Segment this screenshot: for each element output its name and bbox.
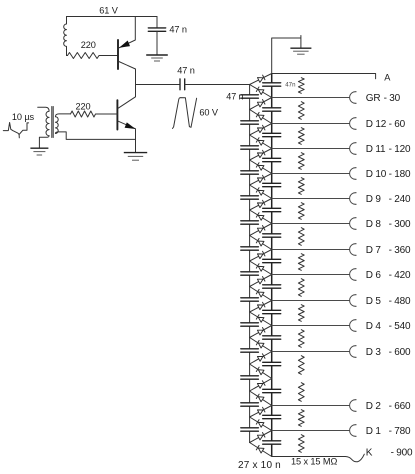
wire HT bus rail [271,74,273,457]
capacitor 10 n (left rail, stage 10) [241,323,259,326]
diode (stage 10b) [250,338,272,352]
diode (stage 12a) [250,379,272,392]
capacitor 10 n (left rail, stage 11) [241,349,259,352]
terminal arc GR [350,92,357,104]
tap wire D8 [272,223,350,225]
ground (below C1) [146,55,168,61]
tap wire D4 [272,325,350,327]
capacitor C4 47 n (left rail, top) [241,95,259,98]
resistor 15 M&#937; (divider segment 5) [298,178,304,195]
capacitor 10 n (left rail, stage 2) [241,121,259,124]
transformer T1 primary winding [38,107,49,136]
resistor 15 M&#937; (divider segment 1) [298,78,304,94]
resistor 15 M&#937; (divider segment 8) [298,254,304,271]
ground (transformer primary) [30,148,48,155]
ground (emitter of Q2) [124,153,147,161]
diode (stage 11a) [250,352,272,365]
svg-text:61 V: 61 V [99,6,118,16]
tap wire D10 [272,173,350,175]
capacitor 10 n (bus, stage 3) [263,158,281,161]
diode (stage 13b) [250,417,272,431]
terminal arc D3 [350,346,357,358]
tap wire D7 [272,249,350,251]
tap wire D11 [272,148,350,150]
diode (stage 2b) [250,135,272,149]
tap wire D1 [272,430,350,432]
resistor 15 M&#937; (divider segment 3) [298,128,304,145]
60 V pulse waveform sketch [173,98,197,129]
svg-text:- 360: - 360 [389,245,411,256]
terminal arc D5 [350,295,357,307]
svg-text:27 x 10 n: 27 x 10 n [238,460,281,471]
svg-text:A: A [384,72,391,82]
terminal arc D11 [350,143,357,155]
svg-text:D 12: D 12 [366,119,387,130]
transformer T1 primary return to ground [39,136,49,148]
diode (stage 4a) [250,174,272,186]
wire cathode line (bottom) [272,456,346,458]
svg-text:GR: GR [366,93,381,104]
diode (stage 14b) [250,443,272,457]
capacitor C3 47 n (bus, top) [263,83,281,86]
resistor R2 220 (base of Q2) [71,111,118,117]
wire bus to top ground [272,36,301,74]
capacitor 10 n (bus, stage 1) [263,108,281,111]
diode (stage 8b) [250,287,272,301]
svg-text:D 11: D 11 [366,144,386,155]
svg-text:- 420: - 420 [389,270,411,281]
tap wire GR [272,97,350,99]
diode (stage 6b) [250,236,272,250]
svg-text:- 240: - 240 [389,194,411,205]
terminal arc D4 [350,320,357,332]
capacitor 10 n (bus, stage 8) [263,285,281,288]
wire left (pulse) rail [249,85,251,443]
capacitor 10 n (bus, stage 5) [263,208,281,211]
diode (stage 0b) [250,85,272,98]
capacitor 10 n (bus, stage 10) [263,336,281,339]
svg-text:47 n: 47 n [177,66,194,76]
transistor Q1 (PNP) [118,17,136,85]
resistor 15 M&#937; (divider segment 11) [298,330,304,348]
svg-text:- 60: - 60 [389,119,406,130]
capacitor 10 n (bus, stage 14) [263,441,281,444]
wire anode rail / terminal A [272,74,376,79]
resistor 15 M&#937; (divider segment 12) [298,356,304,375]
capacitor 10 n (left rail, stage 5) [241,196,259,199]
resistor 15 M&#937; (divider segment 4) [298,153,304,170]
capacitor 10 n (bus, stage 7) [263,259,281,262]
svg-text:- 180: - 180 [389,169,411,180]
svg-text:- 30: - 30 [384,93,401,104]
diode (stage 3b) [250,160,272,174]
svg-text:- 900: - 900 [391,447,413,458]
svg-text:D 10: D 10 [366,169,387,180]
diode (stage 12b) [250,391,272,406]
tap wire D5 [272,300,350,302]
resistor R1 220 (base of Q1) [68,53,118,59]
svg-text:- 300: - 300 [389,219,411,230]
svg-text:47n: 47n [285,81,295,88]
diode (stage 5a) [250,199,272,211]
resistor 15 M&#937; (divider segment 15) [298,435,304,453]
capacitor 10 n (left rail, stage 7) [241,247,259,250]
diode (stage 13a) [250,406,272,418]
tap wire D6 [272,274,350,276]
wire 61V supply rail [67,16,158,18]
terminal arc D6 [350,269,357,281]
tap wire D12 [272,123,350,125]
svg-text:K: K [366,447,373,458]
capacitor 10 n (left rail, stage 13) [241,403,259,406]
ground (top of divider) [290,48,311,54]
diode (stage 14a) [250,431,272,443]
resistor 15 M&#937; (divider segment 9) [298,279,304,297]
svg-text:D 3: D 3 [366,347,382,358]
svg-text:- 480: - 480 [389,296,411,307]
svg-text:D 9: D 9 [366,194,382,205]
svg-text:D 5: D 5 [366,296,382,307]
svg-text:- 780: - 780 [389,426,411,437]
diode (stage 0a) [250,74,272,85]
capacitor C1 47 n (61V rail) [148,17,165,55]
tap wire D2 [272,405,350,407]
capacitor 10 n (bus, stage 11) [263,362,281,365]
diode (stage 9a) [250,301,272,313]
diode (stage 11b) [250,364,272,379]
svg-text:- 600: - 600 [389,347,411,358]
capacitor 10 n (bus, stage 2) [263,133,281,136]
terminal arc D12 [350,118,357,130]
capacitor C2 47 n (coupling) [180,79,185,90]
terminal arc D2 [350,400,357,412]
tap wire D3 [272,351,350,353]
svg-text:47 n: 47 n [169,25,186,35]
diode (stage 8a) [250,275,272,287]
terminal arc D1 [350,425,357,437]
diode (stage 4b) [250,185,272,199]
svg-text:D 7: D 7 [366,245,382,256]
svg-text:D 8: D 8 [366,219,382,230]
resistor 15 M&#937; (divider segment 13) [298,383,304,402]
capacitor 10 n (left rail, stage 9) [241,298,259,301]
svg-text:D 2: D 2 [366,401,382,412]
input pulse waveform sketch [3,123,28,138]
capacitor 10 n (bus, stage 4) [263,183,281,186]
resistor 15 M&#937; (divider segment 10) [298,305,304,322]
capacitor 10 n (bus, stage 6) [263,234,281,237]
svg-text:D 1: D 1 [366,426,382,437]
diode (stage 1a) [250,98,272,110]
capacitor 10 n (bus, stage 12) [263,389,281,392]
tap wire D9 [272,198,350,200]
wire coil to R1 [67,55,68,57]
resistor 15 M&#937; (divider segment 14) [298,410,304,427]
diode (stage 5b) [250,210,272,224]
resistor 15 M&#937; (divider segment 2) [298,102,304,120]
transformer T1 core [52,107,53,138]
capacitor 10 n (left rail, stage 6) [241,221,259,224]
diode (stage 7b) [250,261,272,275]
capacitor 10 n (bus, stage 9) [263,310,281,313]
diode (stage 3a) [250,149,272,161]
transistor Q2 (NPN) [117,85,135,153]
diode (stage 9b) [250,312,272,326]
diode (stage 7a) [250,250,272,262]
diode (stage 2a) [250,124,272,136]
diode (stage 6a) [250,224,272,236]
diode (stage 1b) [250,110,272,124]
diode (stage 10a) [250,326,272,338]
terminal arc D7 [350,244,357,256]
svg-text:D 4: D 4 [366,321,382,332]
wire pulse feed to diode ladder [185,84,250,86]
svg-text:- 120: - 120 [389,144,411,155]
resistor 15 M&#937; (divider segment 7) [298,228,304,246]
svg-text:D 6: D 6 [366,270,382,281]
svg-text:47 n: 47 n [226,92,243,102]
capacitor 10 n (left rail, stage 4) [241,171,259,174]
svg-text:220: 220 [75,102,90,112]
capacitor 10 n (left rail, stage 12) [241,376,259,379]
capacitor 10 n (bus, stage 13) [263,415,281,418]
svg-text:15 x 15 MΩ: 15 x 15 MΩ [291,457,337,467]
svg-text:60 V: 60 V [199,107,218,117]
svg-text:220: 220 [81,40,96,50]
wire Q1/Q2 output node [136,84,180,86]
transformer T1 secondary winding [55,114,135,139]
svg-text:- 540: - 540 [389,321,411,332]
capacitor 10 n (left rail, stage 14) [241,428,259,431]
terminal arc D9 [350,193,357,205]
svg-text:10 µs: 10 µs [12,112,35,122]
terminal arc D8 [350,218,357,230]
inductor L1 (choke) [64,17,67,56]
svg-text:- 660: - 660 [389,401,411,412]
capacitor 10 n (left rail, stage 3) [241,146,259,149]
resistor 15 M&#937; (divider segment 6) [298,203,304,220]
terminal arc D10 [350,168,357,180]
capacitor 10 n (left rail, stage 8) [241,272,259,275]
terminal curl K (cathode) [345,454,364,462]
